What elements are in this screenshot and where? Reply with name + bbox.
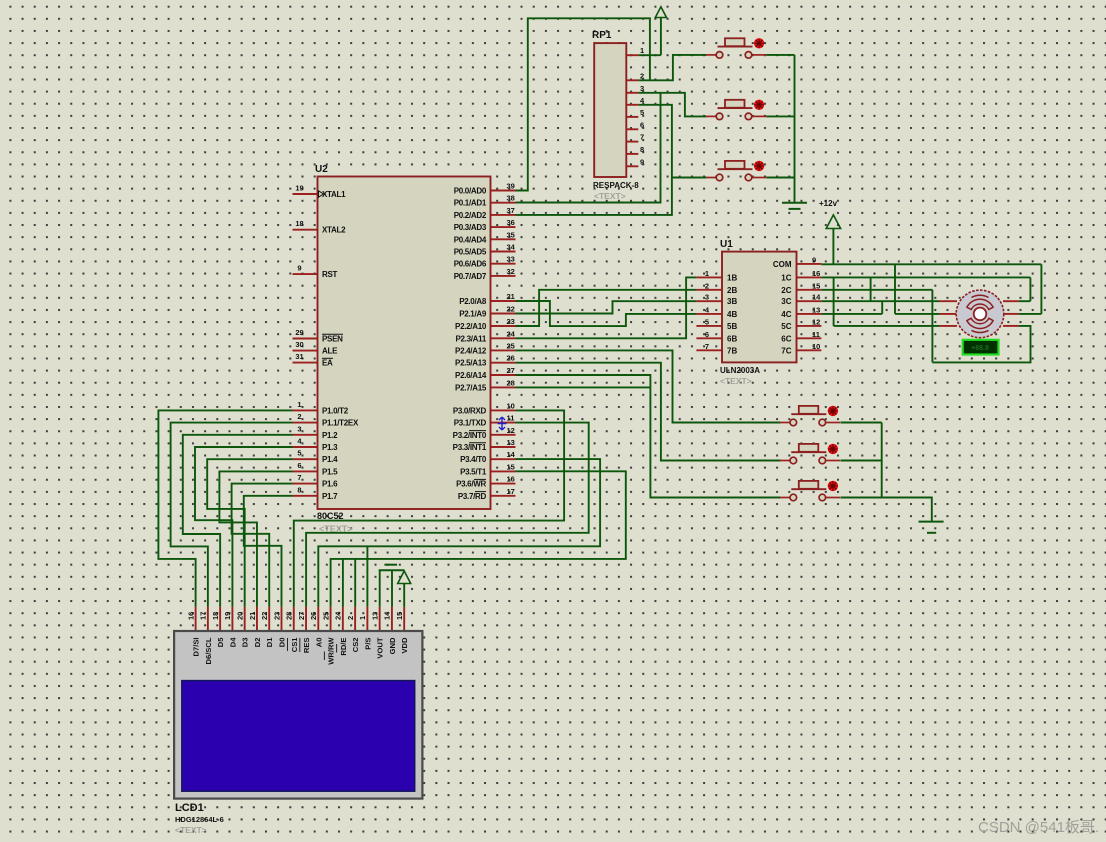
svg-text:2: 2 xyxy=(297,412,301,421)
svg-text:GND: GND xyxy=(388,637,397,654)
svg-text:5: 5 xyxy=(705,317,709,326)
svg-text:P0.4/AD4: P0.4/AD4 xyxy=(454,235,487,244)
svg-text:21: 21 xyxy=(248,612,257,620)
svg-text:7: 7 xyxy=(705,342,709,351)
svg-text:14: 14 xyxy=(507,450,516,459)
svg-text:31: 31 xyxy=(295,352,303,361)
svg-text:20: 20 xyxy=(235,612,244,620)
svg-text:2: 2 xyxy=(705,281,709,290)
svg-text:P/S: P/S xyxy=(363,638,372,650)
svg-text:D2: D2 xyxy=(253,638,262,648)
svg-text:P0.5/AD5: P0.5/AD5 xyxy=(454,248,487,257)
svg-text:P3.5/T1: P3.5/T1 xyxy=(460,467,487,476)
svg-text:P2.2/A10: P2.2/A10 xyxy=(455,322,487,331)
svg-text:8: 8 xyxy=(297,485,301,494)
svg-text:RD/E: RD/E xyxy=(339,638,348,656)
svg-text:EA: EA xyxy=(322,359,333,368)
svg-text:18: 18 xyxy=(295,219,303,228)
svg-text:A0: A0 xyxy=(314,638,323,648)
svg-text:ALE: ALE xyxy=(322,347,338,356)
svg-text:P1.5: P1.5 xyxy=(322,467,338,476)
svg-text:34: 34 xyxy=(507,243,516,252)
svg-text:RES: RES xyxy=(302,638,311,654)
svg-text:P0.7/AD7: P0.7/AD7 xyxy=(454,272,487,281)
svg-text:XTAL2: XTAL2 xyxy=(322,226,346,235)
svg-text:<TEXT>: <TEXT> xyxy=(175,825,207,835)
svg-text:P2.6/A14: P2.6/A14 xyxy=(455,371,487,380)
svg-text:12: 12 xyxy=(507,426,515,435)
svg-text:3: 3 xyxy=(297,424,301,433)
svg-text:37: 37 xyxy=(507,206,515,215)
svg-text:P1.4: P1.4 xyxy=(322,455,338,464)
svg-text:10: 10 xyxy=(812,342,820,351)
svg-text:6C: 6C xyxy=(781,334,791,343)
svg-text:P2.0/A8: P2.0/A8 xyxy=(459,297,487,306)
svg-text:19: 19 xyxy=(223,612,232,620)
svg-text:1: 1 xyxy=(297,400,301,409)
svg-text:23: 23 xyxy=(272,612,281,620)
svg-text:24: 24 xyxy=(334,611,343,620)
svg-text:D4: D4 xyxy=(228,637,237,647)
svg-text:5B: 5B xyxy=(727,322,737,331)
svg-text:7: 7 xyxy=(297,473,301,482)
svg-text:13: 13 xyxy=(812,305,820,314)
svg-text:P3.7/RD: P3.7/RD xyxy=(458,492,487,501)
svg-text:4B: 4B xyxy=(727,310,737,319)
svg-text:1: 1 xyxy=(705,269,709,278)
svg-text:CSDN @541板哥.: CSDN @541板哥. xyxy=(978,818,1099,836)
svg-text:D3: D3 xyxy=(241,638,250,648)
svg-text:11: 11 xyxy=(507,414,515,423)
svg-text:WR/RW: WR/RW xyxy=(327,637,336,665)
svg-text:15: 15 xyxy=(395,612,404,620)
svg-text:16: 16 xyxy=(186,612,195,620)
svg-text:39: 39 xyxy=(507,182,515,191)
svg-text:9: 9 xyxy=(297,264,301,273)
svg-text:P1.1/T2EX: P1.1/T2EX xyxy=(322,419,359,428)
svg-text:25: 25 xyxy=(507,341,515,350)
svg-text:RP1: RP1 xyxy=(592,30,612,41)
svg-text:6B: 6B xyxy=(727,334,737,343)
svg-text:80C52: 80C52 xyxy=(317,511,344,521)
svg-text:1C: 1C xyxy=(781,273,791,282)
svg-text:P3.3/INT1: P3.3/INT1 xyxy=(453,443,487,452)
svg-text:2C: 2C xyxy=(781,286,791,295)
svg-text:VOUT: VOUT xyxy=(376,637,385,658)
svg-text:PSEN: PSEN xyxy=(322,335,343,344)
svg-text:1B: 1B xyxy=(727,273,737,282)
svg-text:13: 13 xyxy=(370,612,379,620)
svg-text:P1.3: P1.3 xyxy=(322,443,338,452)
svg-text:2: 2 xyxy=(640,71,644,80)
svg-text:P0.1/AD1: P0.1/AD1 xyxy=(454,199,487,208)
svg-text:LCD1: LCD1 xyxy=(175,802,204,814)
svg-text:4C: 4C xyxy=(781,310,791,319)
svg-text:5C: 5C xyxy=(781,322,791,331)
svg-text:9: 9 xyxy=(640,157,644,166)
svg-text:3B: 3B xyxy=(727,297,737,306)
svg-text:27: 27 xyxy=(507,366,515,375)
svg-text:P1.6: P1.6 xyxy=(322,480,338,489)
svg-text:P2.3/A11: P2.3/A11 xyxy=(455,334,486,343)
svg-text:29: 29 xyxy=(295,328,303,337)
svg-text:5: 5 xyxy=(640,108,644,117)
svg-text:2B: 2B xyxy=(727,286,737,295)
svg-text:6: 6 xyxy=(640,120,644,129)
svg-text:RESPACK-8: RESPACK-8 xyxy=(593,181,639,190)
svg-text:5: 5 xyxy=(297,449,301,458)
svg-text:15: 15 xyxy=(507,462,515,471)
svg-text:ULN2003A: ULN2003A xyxy=(720,366,760,375)
svg-text:P0.0/AD0: P0.0/AD0 xyxy=(454,187,487,196)
svg-text:15: 15 xyxy=(812,281,820,290)
svg-text:9: 9 xyxy=(812,255,816,264)
svg-text:10: 10 xyxy=(507,401,515,410)
svg-text:30: 30 xyxy=(295,340,303,349)
svg-text:17: 17 xyxy=(507,487,515,496)
svg-text:CS2: CS2 xyxy=(351,638,360,653)
svg-text:P3.6/WR: P3.6/WR xyxy=(456,480,486,489)
svg-text:14: 14 xyxy=(812,293,821,302)
svg-text:35: 35 xyxy=(507,230,515,239)
svg-text:38: 38 xyxy=(507,194,515,203)
svg-text:P2.1/A9: P2.1/A9 xyxy=(459,310,487,319)
svg-text:28: 28 xyxy=(285,612,294,620)
svg-text:26: 26 xyxy=(507,354,515,363)
svg-text:19: 19 xyxy=(295,184,303,193)
svg-text:+12v: +12v xyxy=(819,199,838,208)
svg-text:D7/SI: D7/SI xyxy=(192,638,201,657)
svg-text:U1: U1 xyxy=(720,239,733,250)
svg-text:3C: 3C xyxy=(781,297,791,306)
svg-text:26: 26 xyxy=(309,612,318,620)
svg-text:P0.2/AD2: P0.2/AD2 xyxy=(454,211,487,220)
svg-text:17: 17 xyxy=(199,612,208,620)
svg-text:24: 24 xyxy=(507,329,516,338)
svg-text:6: 6 xyxy=(297,461,301,470)
svg-text:22: 22 xyxy=(260,612,269,620)
svg-text:D0: D0 xyxy=(277,638,286,648)
svg-text:28: 28 xyxy=(507,378,515,387)
svg-text:23: 23 xyxy=(507,317,515,326)
svg-text:COM: COM xyxy=(773,260,792,269)
svg-text:+88.8: +88.8 xyxy=(971,345,989,352)
svg-text:P1.7: P1.7 xyxy=(322,492,338,501)
svg-text:P3.4/T0: P3.4/T0 xyxy=(460,455,487,464)
svg-text:P1.0/T2: P1.0/T2 xyxy=(322,406,349,415)
svg-text:D1: D1 xyxy=(265,637,274,647)
svg-text:32: 32 xyxy=(507,267,515,276)
svg-text:3: 3 xyxy=(705,293,709,302)
svg-text:22: 22 xyxy=(507,305,515,314)
svg-text:1: 1 xyxy=(640,46,644,55)
svg-text:D5: D5 xyxy=(216,637,225,647)
svg-text:2: 2 xyxy=(346,616,355,620)
svg-text:XTAL1: XTAL1 xyxy=(322,190,346,199)
svg-text:8: 8 xyxy=(640,145,644,154)
svg-text:P0.3/AD3: P0.3/AD3 xyxy=(454,223,487,232)
svg-text:U2: U2 xyxy=(315,164,328,175)
svg-text:P1.2: P1.2 xyxy=(322,431,338,440)
svg-text:7B: 7B xyxy=(727,346,737,355)
svg-text:P3.0/RXD: P3.0/RXD xyxy=(453,406,487,415)
svg-text:21: 21 xyxy=(507,292,515,301)
svg-text:3: 3 xyxy=(640,84,644,93)
svg-text:RST: RST xyxy=(322,270,338,279)
svg-text:<TEXT>: <TEXT> xyxy=(319,524,353,534)
svg-text:25: 25 xyxy=(321,612,330,620)
svg-text:6: 6 xyxy=(705,330,709,339)
svg-text:16: 16 xyxy=(507,475,515,484)
svg-text:11: 11 xyxy=(812,330,820,339)
svg-text:16: 16 xyxy=(812,269,820,278)
svg-text:7C: 7C xyxy=(781,346,791,355)
svg-text:12: 12 xyxy=(812,317,820,326)
svg-text:33: 33 xyxy=(507,255,515,264)
svg-text:P2.7/A15: P2.7/A15 xyxy=(455,383,487,392)
svg-text:P3.1/TXD: P3.1/TXD xyxy=(454,419,487,428)
svg-text:P2.4/A12: P2.4/A12 xyxy=(455,346,487,355)
svg-text:CS1: CS1 xyxy=(290,637,299,653)
svg-text:14: 14 xyxy=(383,611,392,620)
svg-text:27: 27 xyxy=(297,612,306,620)
svg-text:18: 18 xyxy=(211,612,220,620)
svg-text:1: 1 xyxy=(358,616,367,620)
svg-text:<TEXT>: <TEXT> xyxy=(720,376,752,386)
svg-text:P3.2/INT0: P3.2/INT0 xyxy=(453,431,487,440)
svg-text:D6/SCL: D6/SCL xyxy=(204,637,213,664)
svg-text:7: 7 xyxy=(640,133,644,142)
svg-text:P2.5/A13: P2.5/A13 xyxy=(455,359,487,368)
svg-text:VDD: VDD xyxy=(400,637,409,654)
svg-text:13: 13 xyxy=(507,438,515,447)
svg-text:36: 36 xyxy=(507,218,515,227)
svg-text:<TEXT>: <TEXT> xyxy=(594,191,626,201)
svg-text:P0.6/AD6: P0.6/AD6 xyxy=(454,260,487,269)
svg-text:HDG12864L-6: HDG12864L-6 xyxy=(175,815,224,824)
